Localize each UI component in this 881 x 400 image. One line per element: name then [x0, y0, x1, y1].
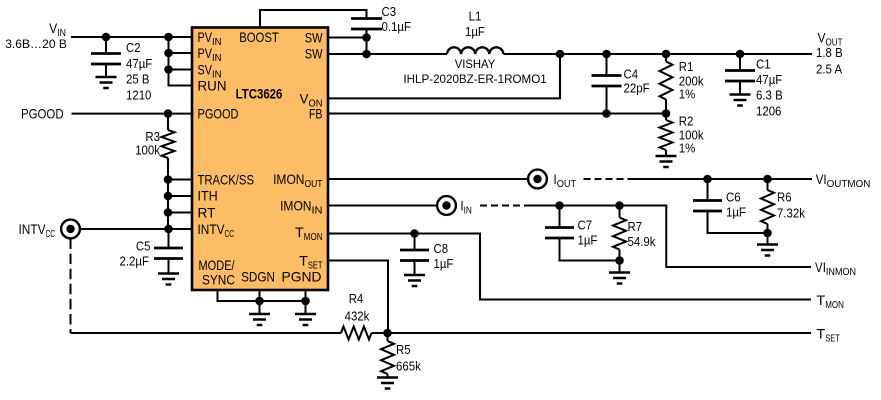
wire PGOOD line	[72, 113, 193, 115]
wire INTVCC dashed drop	[70, 239, 72, 334]
svg-text:C3: C3	[382, 4, 397, 19]
svg-text:FB: FB	[309, 106, 323, 122]
junction ITH	[164, 192, 173, 201]
capacitor C7	[559, 206, 561, 228]
svg-text:R4: R4	[349, 291, 364, 306]
junction PVIN1 branch	[164, 33, 173, 42]
junction R7 bottom	[615, 256, 624, 265]
junction PGOOD/R3	[164, 109, 173, 118]
svg-text:1210: 1210	[126, 87, 151, 102]
svg-text:PGOOD: PGOOD	[21, 105, 64, 121]
svg-text:R5: R5	[396, 342, 411, 357]
junction SDGN	[255, 297, 264, 306]
svg-text:25 B: 25 B	[126, 72, 150, 87]
wire VIN branch vertical	[169, 37, 193, 86]
svg-text:C2: C2	[126, 40, 141, 55]
svg-text:OUT: OUT	[305, 178, 323, 190]
svg-text:C4: C4	[624, 67, 639, 82]
junction RT	[164, 208, 173, 217]
resistor R1	[665, 54, 667, 62]
inductor L1	[447, 47, 503, 54]
wire TSET bottom line left	[71, 332, 342, 334]
wire SVIN stub	[169, 69, 193, 71]
svg-text:PGOOD: PGOOD	[198, 106, 239, 122]
svg-text:CC: CC	[46, 228, 56, 240]
svg-text:C1: C1	[756, 56, 771, 71]
junction VON/VOUT	[556, 50, 565, 59]
ground C1	[730, 95, 751, 106]
svg-text:R2: R2	[679, 114, 694, 129]
junction SW1/C3	[362, 33, 371, 42]
svg-text:IMON: IMON	[273, 171, 304, 187]
svg-text:C7: C7	[578, 218, 593, 233]
svg-text:C6: C6	[726, 190, 741, 205]
svg-text:47µF: 47µF	[126, 56, 152, 71]
wire VON line	[328, 54, 560, 98]
capacitor C1	[739, 54, 741, 71]
wire MODE/SYNC drop	[218, 290, 306, 301]
wire SW1 stub	[328, 37, 367, 39]
ground R6	[757, 245, 778, 256]
svg-text:IHLP-2020BZ-ER-1ROMO1: IHLP-2020BZ-ER-1ROMO1	[403, 72, 547, 86]
svg-text:OUT: OUT	[557, 178, 577, 190]
wire TSET bottom line right	[372, 332, 812, 334]
svg-text:IN: IN	[312, 204, 323, 216]
ground C5	[158, 274, 179, 285]
svg-text:MON: MON	[825, 299, 844, 311]
ground PGND	[295, 314, 316, 325]
svg-text:VISHAY: VISHAY	[455, 57, 496, 71]
wire INTVCC line	[80, 228, 192, 230]
svg-text:IMON: IMON	[280, 198, 311, 214]
wire C2 stem bottom	[105, 64, 107, 77]
svg-text:PV: PV	[198, 45, 213, 61]
svg-text:IN: IN	[212, 52, 222, 64]
terminal IIN circle	[437, 196, 456, 215]
svg-text:SW: SW	[305, 46, 323, 62]
wire SW2 to L1	[328, 53, 447, 55]
svg-text:1206: 1206	[756, 103, 781, 118]
svg-text:SV: SV	[198, 62, 213, 78]
resistor R3	[167, 114, 169, 130]
resistor R2	[660, 120, 673, 150]
wire VIN input line	[71, 36, 192, 38]
wire IMON_OUT line	[328, 178, 529, 180]
resistor R4	[341, 327, 372, 340]
junction R2 top	[662, 109, 671, 118]
svg-text:7.32k: 7.32k	[777, 206, 805, 221]
svg-text:IN: IN	[464, 204, 472, 216]
resistor R7	[619, 206, 621, 218]
svg-text:R7: R7	[628, 219, 643, 234]
svg-text:54.9k: 54.9k	[628, 234, 656, 249]
svg-text:BOOST: BOOST	[239, 29, 279, 45]
wire VOUT rail	[503, 53, 812, 55]
svg-text:47µF: 47µF	[756, 72, 782, 87]
junction R1 top	[662, 50, 671, 59]
wire IMON_IN net	[529, 206, 811, 268]
ground R7	[609, 273, 630, 284]
resistor R6	[767, 179, 769, 190]
capacitor C2	[91, 54, 121, 65]
svg-text:PGND: PGND	[282, 268, 322, 284]
junction R6 top	[763, 175, 772, 184]
capacitor C5	[168, 229, 170, 248]
terminal IOUT circle	[528, 170, 547, 189]
wire IOUT dashed	[584, 178, 634, 180]
junction C4 top	[602, 50, 611, 59]
svg-text:SYNC: SYNC	[202, 272, 235, 288]
svg-text:2.2µF: 2.2µF	[120, 253, 150, 268]
wire SDGN drop	[259, 290, 261, 314]
svg-text:1%: 1%	[679, 141, 696, 156]
junction C2 top	[102, 33, 111, 42]
svg-text:2.5 A: 2.5 A	[816, 62, 842, 77]
wire left pin column	[167, 180, 169, 230]
wire RT stub	[168, 212, 192, 214]
junction TRACK/SS	[164, 175, 173, 184]
junction C8 top	[410, 229, 419, 238]
wire C2 stem top	[105, 37, 107, 54]
svg-text:1µF: 1µF	[465, 24, 485, 39]
junction PVIN2 branch	[164, 49, 173, 58]
svg-text:OUTMON: OUTMON	[827, 178, 871, 190]
wire C3 to SW	[366, 29, 368, 54]
svg-text:RT: RT	[198, 205, 216, 221]
resistor R5	[387, 333, 389, 341]
svg-text:SET: SET	[825, 332, 840, 344]
svg-text:665k: 665k	[396, 359, 421, 374]
svg-text:R1: R1	[679, 59, 694, 74]
svg-text:22pF: 22pF	[624, 81, 650, 96]
junction C7 top	[555, 201, 564, 210]
wire PGND drop	[305, 290, 307, 314]
junction R7 top	[615, 201, 624, 210]
svg-text:R6: R6	[777, 190, 792, 205]
svg-text:SDGN: SDGN	[241, 268, 275, 284]
capacitor C4	[606, 54, 608, 76]
wire BOOST loop	[260, 10, 367, 28]
svg-text:1.8 B: 1.8 B	[816, 45, 843, 60]
junction C4 bottom	[602, 109, 611, 118]
svg-text:CC: CC	[225, 228, 235, 240]
svg-text:3.6B…20 B: 3.6B…20 B	[5, 37, 67, 51]
svg-text:ITH: ITH	[198, 188, 218, 204]
wire VIOUTMON line	[633, 178, 812, 180]
ground R2	[656, 156, 677, 167]
svg-text:C8: C8	[434, 241, 449, 256]
svg-text:RUN: RUN	[198, 78, 227, 94]
ground C2	[96, 77, 117, 88]
junction SVIN branch	[164, 65, 173, 74]
svg-text:1%: 1%	[679, 87, 696, 102]
junction PGND	[301, 297, 310, 306]
svg-text:VI: VI	[816, 171, 827, 187]
wire ITH stub	[168, 195, 192, 197]
wire IMON_IN line	[328, 205, 438, 207]
svg-text:INTV: INTV	[19, 221, 47, 237]
wire TSET pin drop	[328, 261, 388, 334]
svg-text:432k: 432k	[345, 309, 370, 324]
svg-text:INTV: INTV	[198, 221, 226, 237]
junction SW2/C3	[362, 50, 371, 59]
ground C8	[404, 275, 425, 286]
wire PVIN2 stub	[169, 52, 193, 54]
svg-text:6.3 B: 6.3 B	[756, 88, 783, 103]
junction C6 top	[703, 175, 712, 184]
junction C1 top	[736, 50, 745, 59]
ground SDGN	[249, 314, 270, 325]
svg-text:1µF: 1µF	[726, 205, 746, 220]
svg-text:INMON: INMON	[826, 266, 856, 278]
svg-text:100k: 100k	[135, 142, 160, 157]
svg-text:PV: PV	[198, 29, 213, 45]
junction R6 bottom	[763, 229, 772, 238]
wire TRACK/SS stub	[168, 179, 192, 181]
terminal INTVCC circle	[61, 220, 80, 239]
svg-text:C5: C5	[136, 238, 151, 253]
svg-text:L1: L1	[469, 8, 482, 23]
ground R5	[377, 378, 398, 389]
op-amp U1 LTC3626 IC body	[192, 28, 328, 291]
svg-text:0.1µF: 0.1µF	[382, 19, 412, 34]
svg-text:MON: MON	[304, 231, 323, 243]
svg-text:TRACK/SS: TRACK/SS	[198, 172, 255, 188]
junction INTVCC	[164, 225, 173, 234]
svg-text:SW: SW	[305, 30, 323, 46]
junction R4/R5/TSET	[383, 329, 392, 338]
wire TMON line	[328, 234, 811, 300]
capacitor C6	[707, 179, 709, 201]
svg-text:LTC3626: LTC3626	[236, 86, 283, 101]
svg-text:1µF: 1µF	[578, 233, 598, 248]
svg-text:MODE/: MODE/	[199, 257, 235, 273]
wire FB line	[328, 113, 666, 115]
svg-text:1µF: 1µF	[434, 256, 454, 271]
svg-text:VI: VI	[815, 259, 826, 275]
svg-text:IN: IN	[212, 36, 222, 48]
wire IIN dashed	[480, 205, 529, 207]
capacitor C8	[414, 234, 416, 251]
capacitor C3	[351, 19, 382, 30]
